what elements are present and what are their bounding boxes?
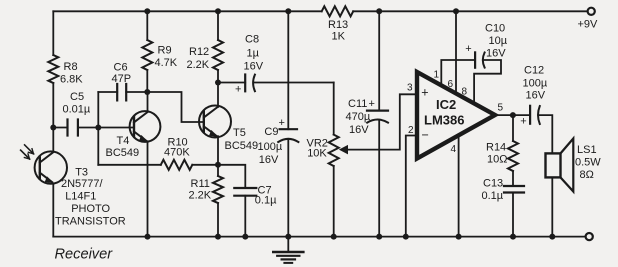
- svg-text:1µ: 1µ: [247, 48, 260, 60]
- wire R12 top: [217, 11, 219, 40]
- resistor R14: [508, 141, 518, 171]
- capacitor C5: [68, 120, 78, 136]
- wire R9 top: [146, 11, 148, 40]
- wire node to C5: [53, 127, 67, 129]
- svg-text:LS1: LS1: [577, 144, 597, 156]
- wire R11 top: [217, 165, 219, 176]
- svg-text:IC2: IC2: [436, 97, 456, 112]
- svg-text:0.1µ: 0.1µ: [482, 190, 504, 202]
- svg-text:C11: C11: [348, 98, 367, 110]
- wire base node to T4: [98, 127, 134, 129]
- wire R12 bottom / T5 collector: [217, 70, 219, 107]
- svg-text:T3: T3: [75, 167, 88, 179]
- svg-text:470µ: 470µ: [346, 111, 371, 123]
- wire T5 emitter: [217, 136, 219, 165]
- svg-text:47P: 47P: [112, 73, 132, 85]
- svg-text:Receiver: Receiver: [55, 246, 114, 262]
- wire R10 left: [98, 164, 161, 166]
- wire C7 bottom: [244, 196, 246, 237]
- svg-text:10Ω: 10Ω: [487, 154, 507, 166]
- svg-text:R11: R11: [191, 178, 210, 190]
- capacitor C9: [280, 128, 297, 130]
- svg-text:C13: C13: [483, 178, 503, 190]
- wire R11 bottom: [217, 203, 219, 237]
- svg-text:10K: 10K: [307, 148, 327, 160]
- svg-text:R14: R14: [486, 142, 506, 154]
- wire left vertical top: [52, 11, 54, 55]
- svg-text:6.8K: 6.8K: [60, 74, 83, 86]
- svg-text:T5: T5: [233, 127, 246, 139]
- wire pin 1: [441, 60, 475, 85]
- svg-text:C5: C5: [70, 91, 84, 103]
- svg-text:100µ: 100µ: [258, 141, 283, 153]
- capacitor C11: [367, 109, 388, 111]
- wire top rail left segment: [53, 10, 321, 12]
- wire R8 to node: [52, 83, 54, 128]
- svg-text:0.1µ: 0.1µ: [255, 194, 277, 206]
- capacitor C13: [504, 186, 524, 193]
- wire C9 bottom: [287, 139, 289, 236]
- transistor T3: [35, 151, 67, 183]
- svg-text:C8: C8: [245, 34, 259, 46]
- ground: [287, 237, 289, 252]
- wire C8 right: [254, 82, 334, 84]
- svg-text:16V: 16V: [244, 61, 264, 73]
- svg-text:R9: R9: [158, 44, 172, 56]
- svg-text:2: 2: [408, 125, 414, 136]
- light arrows: [21, 145, 34, 159]
- svg-text:C6: C6: [114, 61, 128, 73]
- resistor R9: [142, 40, 152, 70]
- svg-text:16V: 16V: [349, 124, 369, 136]
- svg-text:BC549: BC549: [106, 147, 140, 159]
- svg-text:3: 3: [407, 83, 413, 94]
- wire T4 collector: [147, 92, 149, 112]
- terminal +9V: [588, 8, 595, 15]
- svg-text:C9: C9: [264, 126, 278, 138]
- svg-text:R13: R13: [328, 19, 348, 31]
- svg-text:0.01µ: 0.01µ: [63, 103, 91, 115]
- svg-text:2.2K: 2.2K: [189, 190, 212, 202]
- capacitor C8: [244, 75, 246, 92]
- svg-text:10µ: 10µ: [489, 35, 508, 47]
- svg-text:L14F1: L14F1: [65, 191, 96, 203]
- transistor T4: [130, 111, 161, 142]
- wire bottom rail: [53, 236, 585, 238]
- svg-text:+: +: [465, 43, 471, 55]
- svg-text:8Ω: 8Ω: [580, 169, 594, 181]
- wire VR2 wiper: [346, 94, 416, 149]
- svg-text:16V: 16V: [526, 90, 546, 102]
- capacitor C6: [117, 84, 126, 100]
- wire R14 to C13: [512, 171, 514, 186]
- wire C6 right: [126, 91, 147, 93]
- svg-text:4.7K: 4.7K: [155, 57, 178, 69]
- svg-text:100µ: 100µ: [523, 78, 548, 90]
- wire C12 right to speaker: [539, 115, 552, 153]
- terminal bottom right: [586, 233, 593, 240]
- capacitor C7: [234, 188, 256, 196]
- wire LS1 bottom: [551, 177, 553, 236]
- svg-text:+: +: [235, 84, 241, 96]
- svg-text:T4: T4: [117, 135, 130, 147]
- svg-text:R8: R8: [64, 61, 78, 73]
- wire T5 base: [147, 92, 204, 122]
- svg-text:R12: R12: [189, 46, 209, 58]
- wire R9 bottom: [146, 70, 148, 92]
- transistor T5: [199, 106, 231, 138]
- svg-text:C10: C10: [485, 23, 505, 35]
- svg-text:PHOTO: PHOTO: [71, 203, 110, 215]
- svg-text:8: 8: [462, 87, 468, 98]
- svg-text:+: +: [520, 115, 526, 127]
- resistor R11: [213, 176, 223, 203]
- wire C11 top: [378, 11, 380, 110]
- svg-text:−: −: [422, 128, 429, 142]
- svg-text:+: +: [279, 117, 285, 129]
- svg-text:LM386: LM386: [424, 113, 464, 128]
- svg-text:2N5777/: 2N5777/: [61, 178, 104, 190]
- wire C9 top: [287, 11, 289, 129]
- wire R10 right: [192, 164, 218, 166]
- resistor R12: [213, 40, 223, 70]
- capacitor C10: [474, 52, 476, 67]
- svg-text:0.5W: 0.5W: [575, 157, 601, 169]
- svg-text:1: 1: [434, 70, 440, 81]
- wire C5 to T4 base node: [78, 127, 98, 129]
- svg-text:TRANSISTOR: TRANSISTOR: [55, 216, 126, 228]
- wire VR2 bottom: [333, 166, 335, 237]
- op-amp U1 IC2 triangle: [417, 72, 495, 159]
- wire T3 emitter: [52, 184, 54, 237]
- svg-text:16V: 16V: [259, 154, 279, 166]
- svg-text:4: 4: [451, 144, 457, 155]
- svg-text:5: 5: [498, 103, 504, 114]
- svg-text:470K: 470K: [164, 147, 190, 159]
- wire pin 5 output: [495, 114, 530, 116]
- svg-text:BC549: BC549: [225, 140, 259, 152]
- wire C7 top: [218, 165, 245, 188]
- wire pin 6: [455, 11, 457, 93]
- resistor R10: [161, 160, 193, 170]
- svg-text:1K: 1K: [332, 31, 346, 43]
- wire pin 2: [406, 136, 415, 237]
- svg-text:+: +: [421, 86, 428, 100]
- speaker LS1: [546, 153, 561, 177]
- wire C11 bottom: [378, 120, 380, 237]
- wire C8 left: [218, 82, 245, 84]
- svg-text:16V: 16V: [486, 48, 506, 60]
- svg-text:6: 6: [448, 79, 454, 90]
- svg-text:C12: C12: [524, 65, 544, 77]
- wire C13 bottom: [512, 193, 514, 237]
- potentiometer VR2: [329, 135, 339, 166]
- capacitor C12: [529, 106, 531, 124]
- wire R14 top: [512, 115, 514, 141]
- svg-text:2.2K: 2.2K: [187, 59, 210, 71]
- wire pin 4: [458, 135, 460, 237]
- wire C6 left vertical: [97, 92, 99, 165]
- resistor R13: [322, 6, 354, 16]
- wire T3 collector: [52, 128, 54, 152]
- svg-text:+: +: [369, 98, 375, 110]
- wire C6 left: [98, 91, 117, 93]
- wire T4 emitter: [147, 141, 149, 236]
- wire VR2 top: [333, 83, 335, 135]
- wire C10 right to pin 8: [474, 60, 501, 103]
- svg-text:+9V: +9V: [578, 19, 599, 31]
- resistor R8: [48, 55, 58, 83]
- wire top rail right segment: [353, 10, 587, 12]
